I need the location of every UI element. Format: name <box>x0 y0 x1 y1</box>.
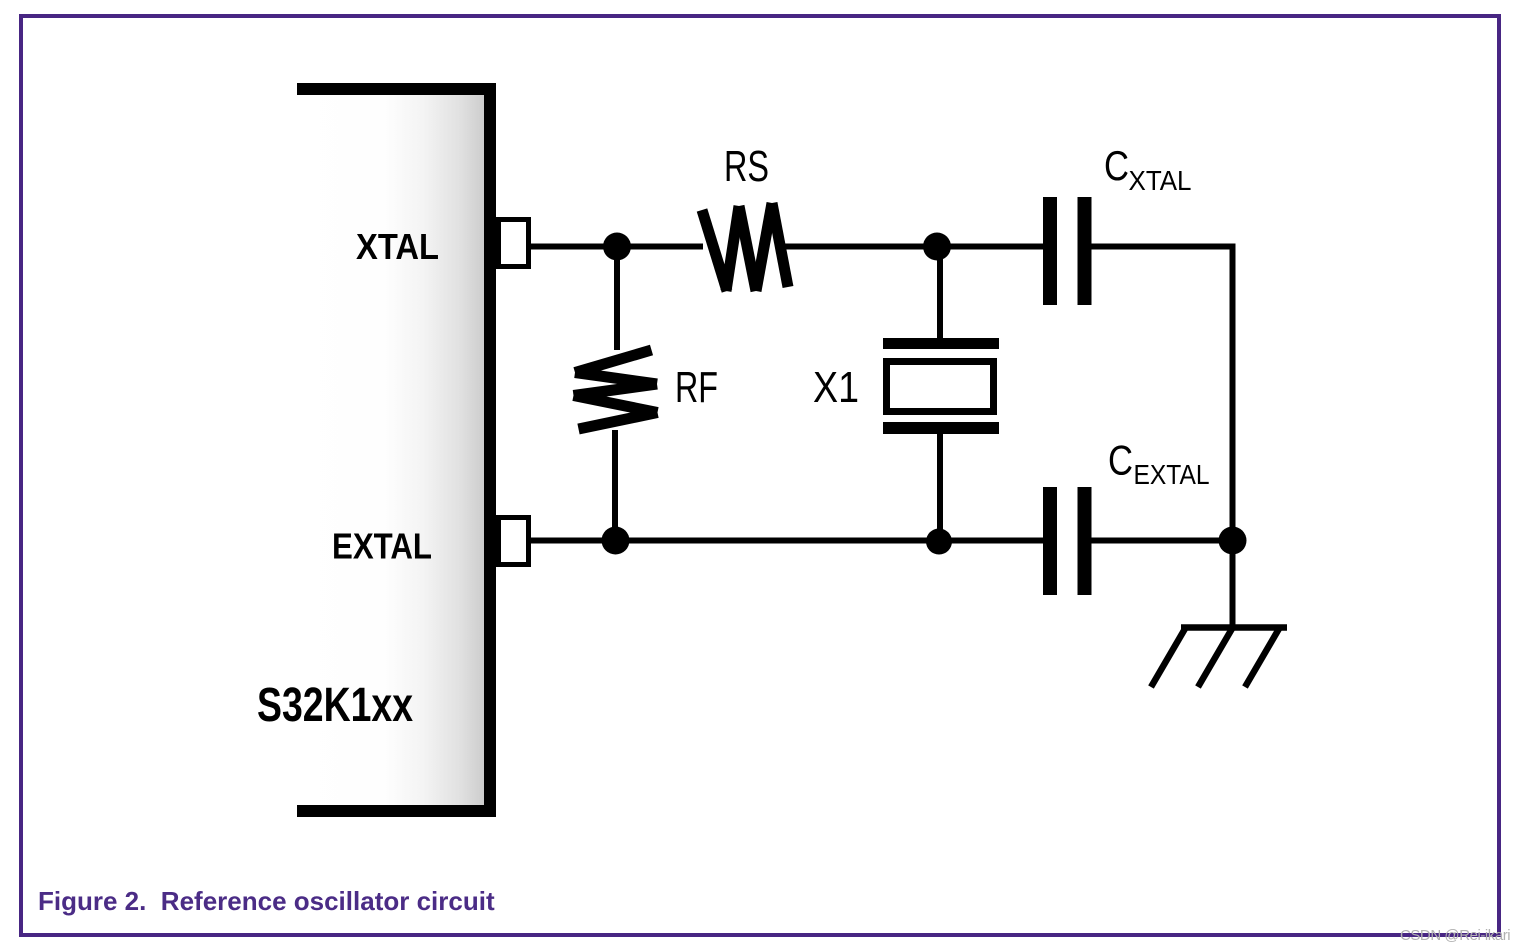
svg-text:RS: RS <box>724 142 769 191</box>
svg-text:C: C <box>1108 437 1133 484</box>
svg-text:XTAL: XTAL <box>1129 165 1192 196</box>
svg-text:S32K1xx: S32K1xx <box>257 679 413 732</box>
svg-text:XTAL: XTAL <box>356 226 439 267</box>
svg-text:RF: RF <box>675 363 718 412</box>
svg-text:C: C <box>1104 142 1129 189</box>
svg-text:X1: X1 <box>813 363 859 412</box>
svg-text:EXTAL: EXTAL <box>1134 459 1210 490</box>
svg-text:EXTAL: EXTAL <box>332 526 432 567</box>
